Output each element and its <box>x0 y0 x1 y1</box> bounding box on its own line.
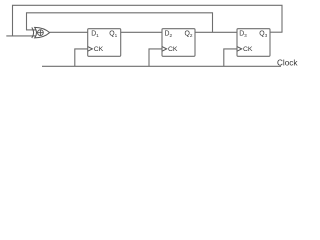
XOR gate U1 <box>32 27 50 38</box>
D flip-flop FF3 <box>237 29 270 57</box>
D flip-flop FF1 <box>88 29 121 57</box>
node Clock label <box>277 59 298 68</box>
wire: outer feedback Q3 to XOR lower input <box>13 5 283 36</box>
wire: inner feedback Q2 to XOR upper input <box>27 13 213 32</box>
wire: XOR output to D1 <box>50 31 88 33</box>
wire: XOR upper input line <box>26 29 36 31</box>
wire: clock bus <box>42 65 281 67</box>
wire: XOR lower input line <box>6 35 36 37</box>
D flip-flop FF2 <box>162 29 195 57</box>
svg-text:CK: CK <box>94 46 104 53</box>
svg-text:CK: CK <box>168 46 178 53</box>
wire: Q1 to D2 <box>121 31 162 33</box>
wire: Q3 to outer feedback corner <box>270 31 283 33</box>
svg-text:Clock: Clock <box>277 59 298 68</box>
svg-text:CK: CK <box>243 46 253 53</box>
wire: clock tap to FF1 CK <box>75 49 88 66</box>
wire: clock tap to FF3 CK <box>224 49 237 66</box>
wire: clock tap to FF2 CK <box>149 49 162 66</box>
wire: Q2 to D3 <box>195 31 237 33</box>
